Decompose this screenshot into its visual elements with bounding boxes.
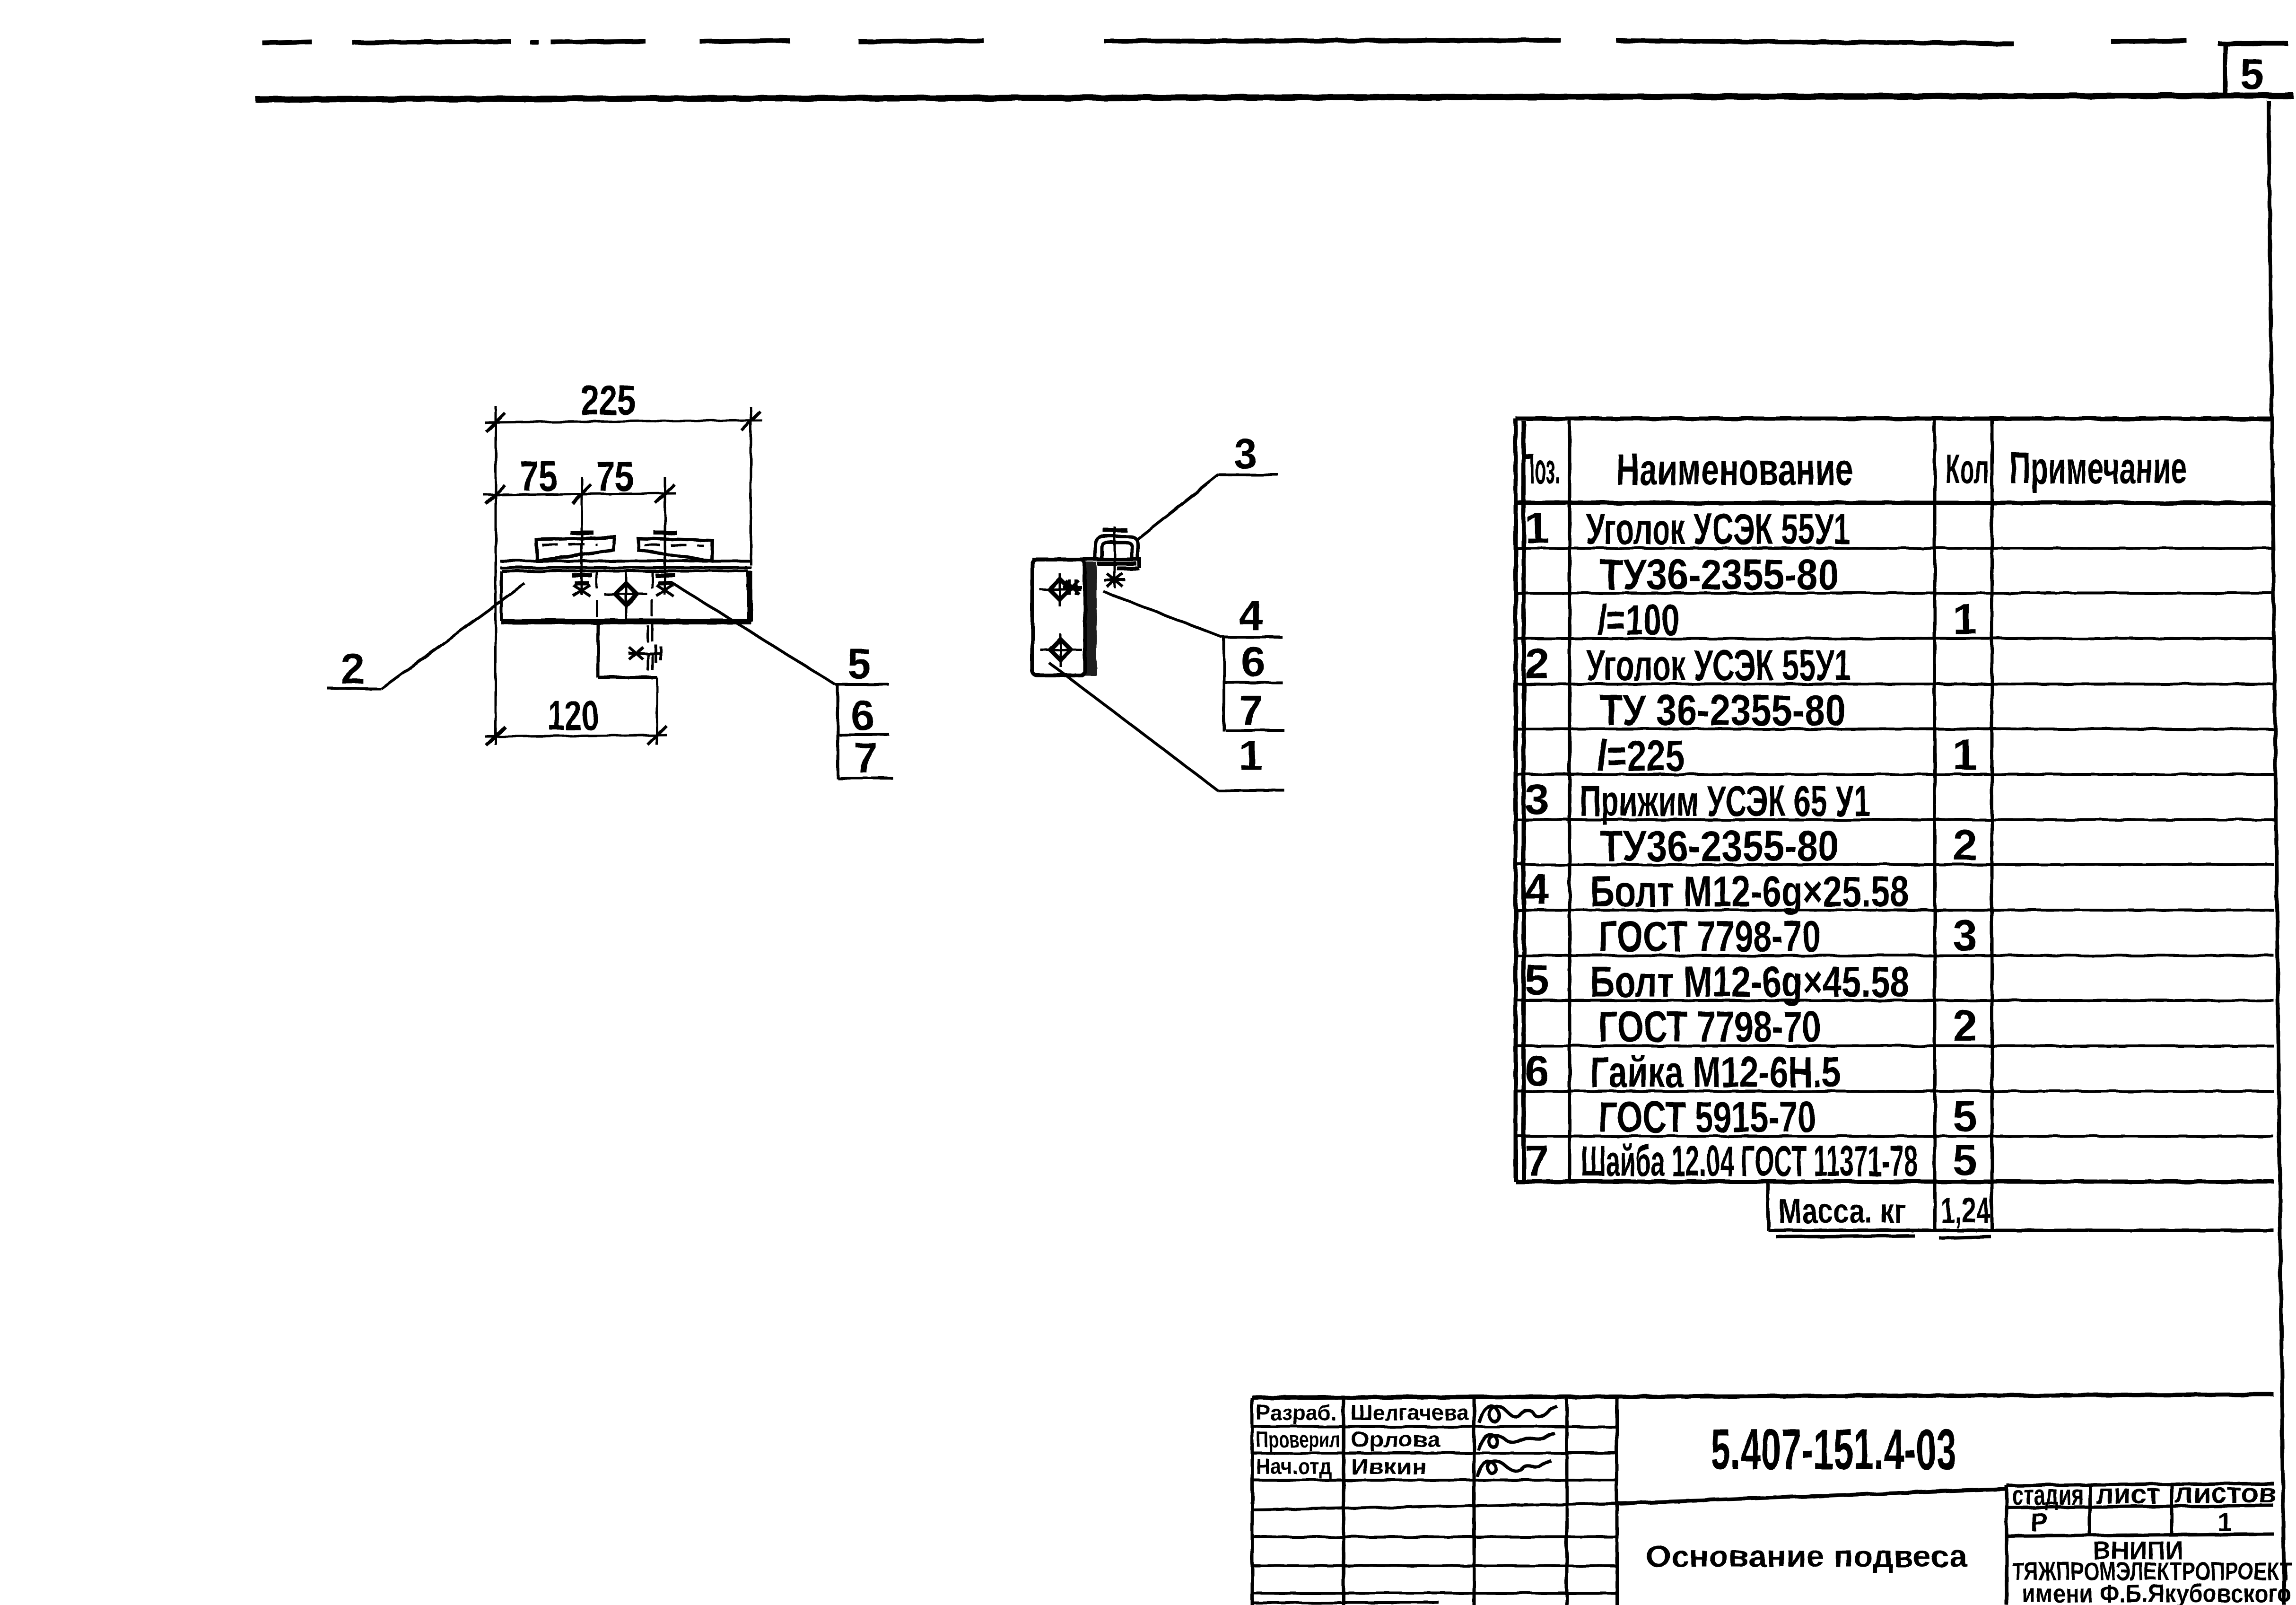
svg-text:2: 2: [1953, 1002, 1977, 1050]
svg-text:5: 5: [847, 640, 871, 688]
svg-text:1: 1: [1525, 504, 1549, 552]
svg-text:Наименование: Наименование: [1616, 445, 1853, 495]
svg-text:3: 3: [1233, 430, 1257, 478]
svg-text:Болт М12-6g×25.58: Болт М12-6g×25.58: [1590, 868, 1909, 916]
svg-text:l=225: l=225: [1597, 732, 1685, 780]
svg-text:Примечание: Примечание: [2010, 443, 2187, 493]
svg-text:ГОСТ 7798-70: ГОСТ 7798-70: [1598, 912, 1821, 961]
svg-text:Гайка М12-6Н.5: Гайка М12-6Н.5: [1590, 1048, 1841, 1096]
svg-text:5: 5: [1525, 956, 1549, 1004]
svg-text:Разраб.: Разраб.: [1256, 1400, 1336, 1425]
svg-text:7: 7: [854, 735, 878, 782]
svg-text:225: 225: [581, 377, 636, 424]
svg-text:листов: листов: [2175, 1477, 2277, 1509]
svg-text:1,24: 1,24: [1941, 1191, 1990, 1231]
svg-text:l=100: l=100: [1597, 596, 1680, 644]
svg-text:ГОСТ 7798-70: ГОСТ 7798-70: [1598, 1003, 1821, 1051]
svg-text:1: 1: [1239, 732, 1263, 780]
svg-text:Орлова: Орлова: [1351, 1427, 1440, 1452]
svg-text:Шайба 12.04 ГОСТ 11371-78: Шайба 12.04 ГОСТ 11371-78: [1581, 1137, 1918, 1185]
svg-text:стадия: стадия: [2012, 1479, 2084, 1511]
svg-text:5: 5: [2240, 50, 2264, 98]
svg-text:Кол: Кол: [1946, 446, 1989, 492]
svg-text:Болт М12-6g×45.58: Болт М12-6g×45.58: [1590, 958, 1909, 1006]
svg-text:2: 2: [1525, 640, 1549, 688]
svg-text:Р: Р: [2030, 1507, 2048, 1537]
svg-text:5.407-151.4-03: 5.407-151.4-03: [1711, 1417, 1956, 1482]
svg-text:75: 75: [596, 453, 634, 500]
svg-text:Прижим УСЭК 65 У1: Прижим УСЭК 65 У1: [1580, 777, 1870, 825]
svg-text:Поз.: Поз.: [1521, 446, 1560, 493]
svg-text:7: 7: [1525, 1137, 1549, 1185]
svg-text:2: 2: [340, 645, 365, 693]
svg-text:1: 1: [1953, 731, 1977, 779]
svg-text:4: 4: [1525, 866, 1549, 914]
svg-text:120: 120: [548, 692, 599, 739]
svg-text:ГОСТ 5915-70: ГОСТ 5915-70: [1598, 1093, 1816, 1141]
svg-text:ТУ36-2355-80: ТУ36-2355-80: [1600, 551, 1839, 599]
svg-text:Нач.отд: Нач.отд: [1256, 1454, 1332, 1479]
svg-text:имени Ф.Б.Якубовского: имени Ф.Б.Якубовского: [2022, 1579, 2291, 1605]
svg-text:3: 3: [1953, 912, 1977, 960]
svg-text:ТУ 36-2355-80: ТУ 36-2355-80: [1600, 686, 1846, 735]
svg-text:Основание подвеса: Основание подвеса: [1646, 1539, 1967, 1573]
svg-text:6: 6: [851, 692, 874, 739]
svg-text:Уголок УСЭК 55У1: Уголок УСЭК 55У1: [1586, 505, 1850, 553]
svg-text:2: 2: [1953, 821, 1977, 869]
svg-text:1: 1: [2217, 1507, 2232, 1536]
svg-text:3: 3: [1525, 775, 1549, 824]
svg-text:ТУ36-2355-80: ТУ36-2355-80: [1600, 822, 1839, 870]
svg-text:6: 6: [1241, 638, 1265, 685]
svg-text:4: 4: [1239, 592, 1263, 640]
svg-text:6: 6: [1525, 1047, 1549, 1095]
svg-text:Шелгачева: Шелгачева: [1351, 1400, 1469, 1425]
svg-text:1: 1: [1953, 595, 1977, 643]
svg-text:5: 5: [1953, 1092, 1977, 1140]
svg-text:7: 7: [1239, 687, 1263, 735]
svg-text:Проверил: Проверил: [1256, 1427, 1340, 1452]
svg-text:Ивкин: Ивкин: [1351, 1454, 1426, 1479]
svg-text:Масса. кг: Масса. кг: [1778, 1193, 1906, 1230]
svg-text:75: 75: [520, 453, 558, 500]
svg-text:лист: лист: [2096, 1478, 2160, 1510]
svg-text:Уголок УСЭК 55У1: Уголок УСЭК 55У1: [1586, 641, 1851, 690]
svg-text:5: 5: [1953, 1136, 1977, 1184]
